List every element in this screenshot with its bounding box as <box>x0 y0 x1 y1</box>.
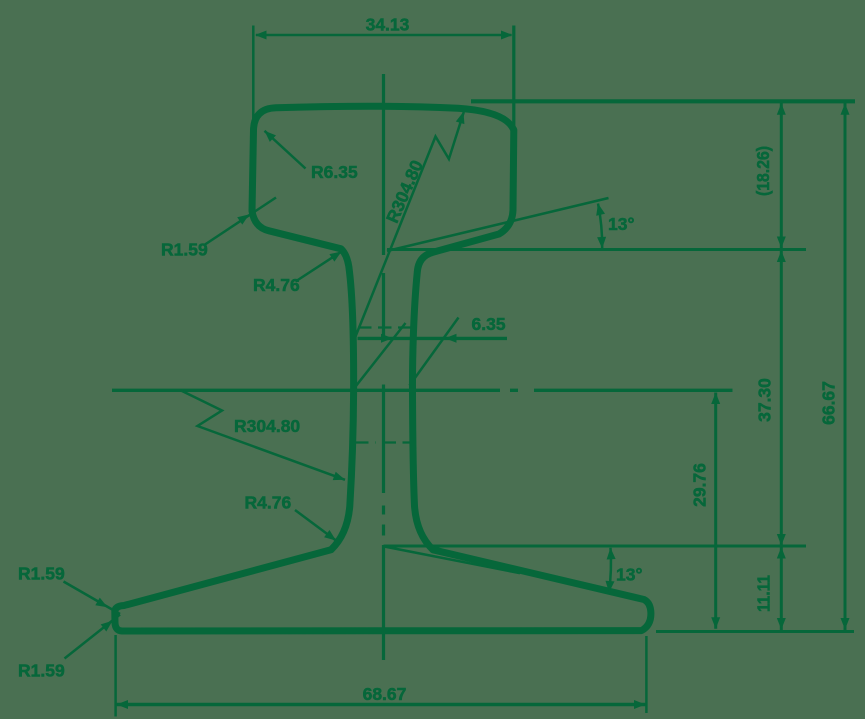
svg-text:(18.26): (18.26) <box>753 146 773 196</box>
svg-text:37.30: 37.30 <box>755 378 775 422</box>
svg-text:R304.80: R304.80 <box>234 416 300 436</box>
svg-text:34.13: 34.13 <box>366 15 410 35</box>
svg-text:R4.76: R4.76 <box>245 493 292 513</box>
svg-text:68.67: 68.67 <box>363 684 407 704</box>
svg-text:R1.59: R1.59 <box>18 661 65 681</box>
svg-text:R1.59: R1.59 <box>18 564 65 584</box>
svg-text:R1.59: R1.59 <box>161 240 208 260</box>
svg-text:66.67: 66.67 <box>819 381 839 425</box>
svg-text:6.35: 6.35 <box>472 314 506 334</box>
svg-text:13°: 13° <box>616 565 642 585</box>
svg-text:29.76: 29.76 <box>690 463 710 507</box>
svg-text:13°: 13° <box>608 214 634 234</box>
svg-text:R4.76: R4.76 <box>253 275 300 295</box>
svg-text:11.11: 11.11 <box>754 575 774 612</box>
svg-text:R6.35: R6.35 <box>311 162 358 182</box>
